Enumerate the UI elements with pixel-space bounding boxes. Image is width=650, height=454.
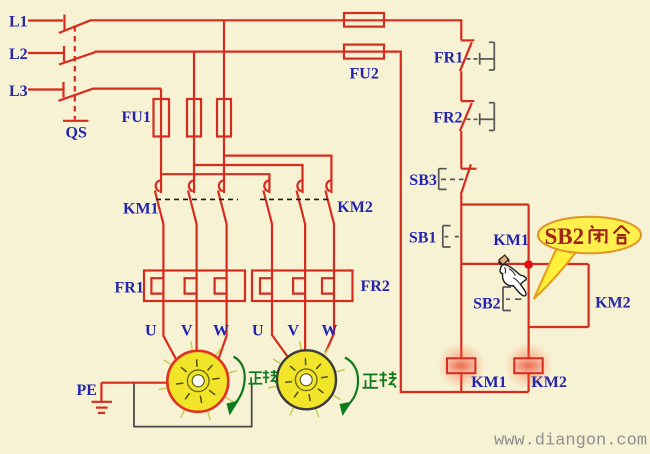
svg-text:L3: L3 <box>9 83 28 100</box>
svg-text:V: V <box>288 323 300 340</box>
svg-text:FR2: FR2 <box>361 278 390 295</box>
svg-text:FU1: FU1 <box>122 109 151 126</box>
svg-text:FR1: FR1 <box>434 49 463 66</box>
svg-text:L1: L1 <box>9 13 28 30</box>
svg-text:W: W <box>322 323 338 340</box>
svg-text:SB3: SB3 <box>409 172 437 189</box>
svg-text:KM1: KM1 <box>493 232 529 249</box>
svg-text:SB2: SB2 <box>545 224 585 249</box>
svg-text:KM1: KM1 <box>471 374 507 391</box>
svg-text:KM2: KM2 <box>531 374 567 391</box>
svg-text:SB2: SB2 <box>473 296 501 313</box>
svg-text:L2: L2 <box>9 46 28 63</box>
svg-text:FR1: FR1 <box>115 280 144 297</box>
svg-text:PE: PE <box>77 382 97 399</box>
svg-text:SB1: SB1 <box>409 229 437 246</box>
svg-text:FR2: FR2 <box>433 110 462 127</box>
svg-text:KM1: KM1 <box>123 201 159 218</box>
svg-text:U: U <box>145 323 157 340</box>
svg-text:FU2: FU2 <box>350 66 379 83</box>
svg-text:KM2: KM2 <box>595 295 631 312</box>
svg-text:W: W <box>213 323 229 340</box>
svg-text:U: U <box>252 323 264 340</box>
svg-text:V: V <box>181 323 193 340</box>
svg-text:KM2: KM2 <box>337 199 373 216</box>
svg-text:www.diangon.com: www.diangon.com <box>494 432 647 451</box>
svg-text:QS: QS <box>66 125 87 142</box>
